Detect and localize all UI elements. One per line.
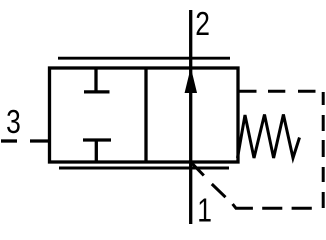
blocked port symbol (top T) xyxy=(84,68,110,92)
pilot box dashed right line xyxy=(322,92,325,208)
blocked port symbol (bottom T) xyxy=(83,140,111,162)
svg-text:1: 1 xyxy=(197,193,212,229)
port 2-1 line (vertical through valve) xyxy=(189,10,192,224)
valve body (two-position envelope) xyxy=(50,68,239,162)
svg-text:3: 3 xyxy=(6,104,21,140)
wire: lower stroke-limit line xyxy=(59,167,229,170)
position divider xyxy=(144,68,147,162)
port 3 line (dashed stub) xyxy=(1,139,50,142)
flow path arrow head xyxy=(185,70,196,93)
spring xyxy=(238,115,300,159)
pilot box dashed bottom line xyxy=(233,204,312,208)
pilot line diagonal (dashed, from port 1 junction) xyxy=(191,162,226,197)
svg-text:2: 2 xyxy=(195,6,210,42)
wire: upper stroke-limit line xyxy=(58,57,230,60)
pilot box dashed top line xyxy=(238,90,316,93)
